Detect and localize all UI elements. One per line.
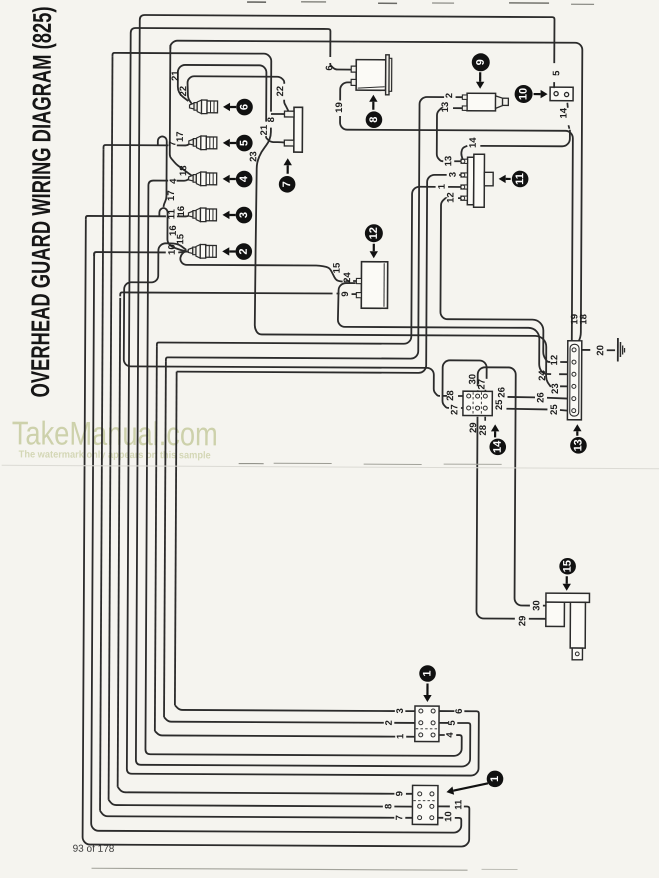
svg-text:12: 12	[446, 192, 457, 203]
wire 27 (connector 14 loop)	[442, 360, 486, 408]
svg-text:25: 25	[494, 399, 505, 410]
svg-text:4: 4	[168, 178, 179, 184]
wire 5 stub into item 10	[553, 87, 555, 89]
wire 2 (connector 1 to sender 9)	[164, 96, 463, 724]
svg-text:7: 7	[281, 181, 293, 187]
wire 7 (connector 1 to lamp 5)	[100, 141, 416, 818]
svg-text:10: 10	[443, 811, 454, 822]
svg-text:18: 18	[178, 165, 189, 176]
svg-text:15: 15	[332, 262, 343, 273]
svg-text:13: 13	[443, 156, 454, 167]
lamp 6	[189, 100, 217, 114]
wire 25 (connector 14 to terminal strip)	[488, 408, 568, 410]
svg-text:1: 1	[437, 183, 448, 189]
svg-text:21: 21	[259, 124, 270, 135]
svg-text:9: 9	[475, 59, 487, 65]
wire 12 (switch 11 to terminal strip)	[440, 198, 568, 362]
svg-text:26: 26	[535, 392, 546, 403]
svg-text:17: 17	[175, 131, 186, 142]
gauge 8	[351, 55, 392, 95]
svg-text:10: 10	[518, 88, 530, 100]
svg-text:23: 23	[248, 151, 259, 162]
callout 4	[223, 171, 253, 188]
switch 15	[546, 593, 590, 660]
wire 15 (lamp 2 to item 12)	[180, 251, 357, 282]
svg-text:5: 5	[238, 140, 250, 146]
svg-text:6: 6	[239, 104, 251, 110]
switch 11	[461, 154, 493, 207]
callout 5	[223, 135, 253, 152]
callout 9	[472, 53, 490, 89]
wire 13 (sender 9 to switch 11)	[437, 108, 463, 161]
svg-text:2: 2	[384, 720, 395, 725]
svg-text:13: 13	[440, 102, 451, 113]
svg-text:22: 22	[275, 86, 286, 97]
wire 30 (connector 14 to switch 15)	[477, 367, 548, 605]
wire 16 (lamp 3 to lamp 2)	[159, 208, 188, 251]
wire number labels	[163, 64, 608, 822]
lamp 4	[189, 172, 217, 186]
callout 1b	[446, 770, 503, 795]
svg-text:13: 13	[572, 439, 584, 451]
wire 10 (connector 1 to lamp 2)	[91, 251, 464, 833]
lamp 5	[189, 136, 217, 150]
svg-text:30: 30	[531, 600, 542, 611]
svg-text:11: 11	[453, 799, 464, 810]
connector 14	[463, 391, 492, 415]
svg-text:3: 3	[238, 212, 250, 218]
wire 21 (lamp 6 to lamp bar 7)	[178, 65, 290, 143]
svg-text:6: 6	[324, 65, 335, 70]
wire 14 (switch 11 to item 10)	[461, 102, 570, 160]
callout 13	[570, 424, 587, 453]
svg-text:TakeManual.com: TakeManual.com	[12, 414, 218, 452]
sender 9	[462, 93, 508, 111]
svg-text:20: 20	[595, 345, 606, 356]
terminal strip 13	[567, 341, 581, 420]
wire 28 (lamp 2 to connector 14)	[124, 243, 470, 396]
svg-text:5: 5	[447, 720, 458, 726]
callout 12	[365, 224, 383, 258]
svg-text:1: 1	[395, 733, 406, 739]
callout 6	[223, 99, 253, 116]
svg-text:3: 3	[395, 708, 406, 713]
ground 20	[618, 338, 625, 362]
wire 22 (lamp 6 to lamp bar 7)	[187, 76, 289, 112]
wire 26 (connector 14 to terminal strip)	[488, 396, 568, 398]
svg-text:27: 27	[449, 404, 460, 415]
wire 3 (connector 1 to switch 11 pin 3)	[175, 173, 463, 711]
lamp bar 7	[284, 107, 302, 152]
wire 24 (item 12 to terminal strip)	[338, 283, 568, 374]
wire 5 (connector 1 to item 10)	[136, 15, 555, 767]
svg-text:4: 4	[238, 175, 250, 182]
svg-text:15: 15	[562, 560, 574, 572]
svg-text:28: 28	[478, 425, 489, 436]
svg-text:23: 23	[550, 383, 561, 394]
svg-text:7: 7	[394, 815, 405, 820]
svg-text:22: 22	[178, 86, 189, 97]
svg-text:9: 9	[394, 791, 405, 796]
connector 1a	[415, 706, 439, 742]
svg-text:28: 28	[445, 390, 456, 401]
svg-text:5: 5	[551, 70, 562, 76]
wire 19 (gauge 8 to terminal strip)	[339, 82, 576, 350]
svg-text:4: 4	[445, 732, 456, 738]
svg-text:The watermark only appears on: The watermark only appears on this sampl…	[19, 449, 211, 461]
wire 17 (lamp 5 to lamp 3)	[157, 136, 166, 207]
svg-text:12: 12	[549, 355, 560, 366]
svg-text:27: 27	[477, 379, 488, 390]
callout 7	[279, 158, 296, 192]
svg-text:8: 8	[383, 804, 394, 809]
wire 1 (connector 1 to switch 11 pin 1)	[155, 185, 463, 737]
wire 18 (lamp 4 to terminal strip)	[169, 41, 583, 350]
lamp 3	[188, 208, 216, 222]
svg-text:14: 14	[468, 137, 479, 148]
callout 11	[499, 171, 529, 188]
svg-text:3: 3	[448, 172, 459, 177]
callout 15	[559, 558, 576, 591]
callout 3	[222, 207, 252, 224]
connector 1b	[412, 785, 438, 824]
svg-text:19: 19	[334, 102, 345, 113]
lamp 2	[188, 244, 216, 258]
wire 29 (connector 14 to switch 15)	[476, 410, 546, 618]
callout 14	[489, 424, 506, 455]
wire 8 / wire 23 (connector 1 to lamp bar 7 and terminal strip)	[109, 53, 570, 808]
svg-text:17: 17	[166, 190, 177, 201]
svg-text:2: 2	[238, 248, 250, 254]
svg-text:16: 16	[168, 225, 179, 236]
svg-text:21: 21	[170, 70, 181, 81]
svg-text:8: 8	[368, 117, 380, 123]
item 12	[356, 262, 387, 309]
wire 4 (connector 1 to lamp 4)	[145, 177, 464, 756]
wire 11 (connector 1 to lamp 3)	[83, 213, 473, 847]
callout 8	[366, 95, 383, 128]
svg-text:12: 12	[368, 227, 380, 239]
svg-text:6: 6	[454, 708, 465, 713]
wire to ground 20	[574, 349, 615, 351]
svg-text:1: 1	[422, 670, 434, 676]
svg-text:25: 25	[549, 404, 560, 415]
svg-text:26: 26	[497, 387, 508, 398]
svg-text:24: 24	[537, 370, 548, 381]
svg-text:16: 16	[176, 206, 187, 217]
svg-text:OVERHEAD GUARD WIRING DIAGRAM: OVERHEAD GUARD WIRING DIAGRAM (825)	[25, 6, 57, 397]
callout 1a	[419, 665, 436, 702]
svg-text:9: 9	[340, 291, 351, 296]
svg-text:18: 18	[578, 314, 589, 325]
wire 9 (connector 1 to item 12)	[118, 292, 416, 793]
svg-text:11: 11	[514, 173, 526, 185]
item 10	[550, 87, 573, 101]
callout 2	[222, 243, 252, 260]
svg-text:14: 14	[492, 440, 504, 453]
svg-text:10: 10	[167, 244, 178, 255]
wire 6 (connector 1 to gauge 8)	[127, 28, 483, 776]
svg-text:24: 24	[342, 272, 353, 283]
svg-text:8: 8	[266, 117, 277, 122]
svg-text:14: 14	[558, 107, 569, 118]
callout 10	[515, 85, 548, 103]
svg-text:1: 1	[489, 776, 501, 782]
svg-text:2: 2	[444, 93, 455, 98]
svg-text:29: 29	[517, 616, 528, 627]
